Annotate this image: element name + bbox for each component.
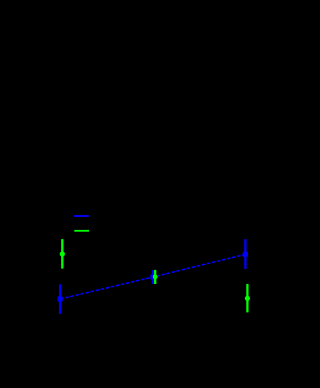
blue error bar point 3 <box>244 239 246 269</box>
legend green line <box>74 230 89 232</box>
blue error bar point 2 <box>152 270 154 284</box>
blue dashed fit line <box>60 254 245 299</box>
green error bar point 3 <box>246 284 248 313</box>
green error bar point 2 <box>154 270 156 284</box>
green error bar point 1 <box>61 239 63 269</box>
legend blue line <box>74 215 89 217</box>
blue error bar point 1 <box>59 284 61 314</box>
